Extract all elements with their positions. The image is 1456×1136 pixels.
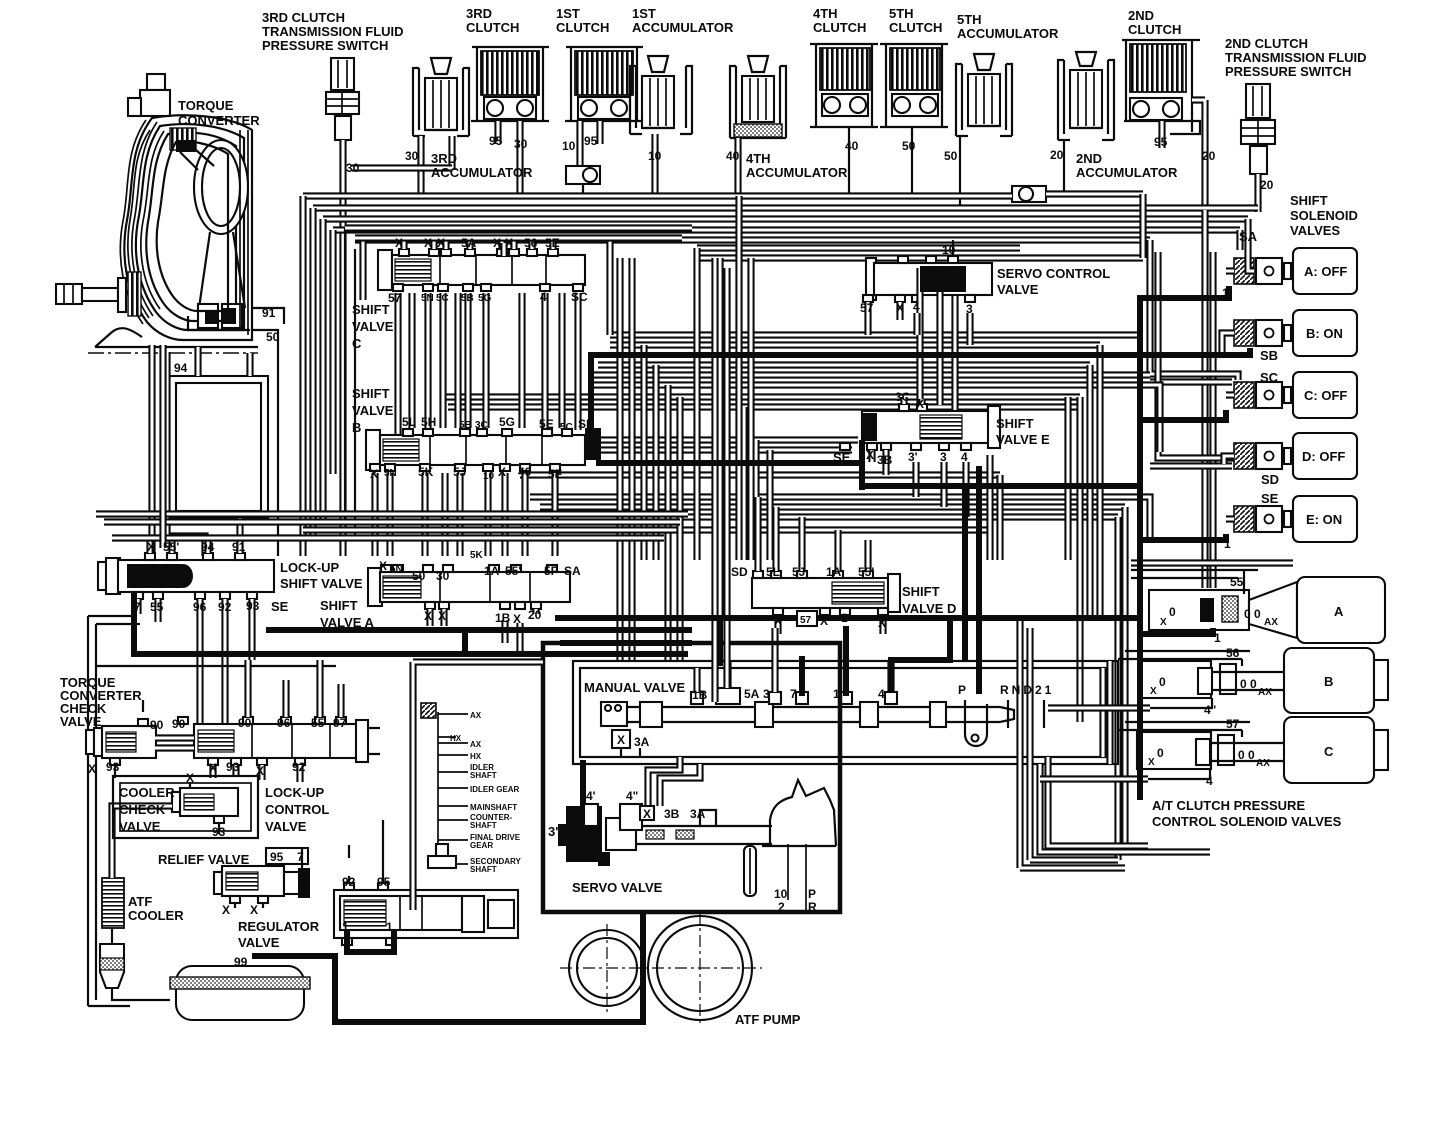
wire shift valve D stubs xyxy=(758,497,883,634)
svg-text:4TH: 4TH xyxy=(746,151,771,166)
svg-text:5A: 5A xyxy=(744,687,760,701)
svg-text:30: 30 xyxy=(346,161,360,175)
svg-text:AX: AX xyxy=(1264,617,1278,628)
lock-up control valve xyxy=(178,717,380,765)
heavy wire SE xyxy=(596,440,1140,490)
svg-text:55': 55' xyxy=(505,564,521,578)
svg-text:RND21: RND21 xyxy=(1000,683,1054,697)
wire torque converter drops xyxy=(163,345,250,548)
svg-text:X: X xyxy=(1160,617,1167,628)
svg-text:4": 4" xyxy=(1204,703,1216,717)
svg-text:90: 90 xyxy=(150,718,164,732)
svg-text:1A: 1A xyxy=(826,565,842,579)
svg-text:4: 4 xyxy=(1206,774,1213,788)
svg-text:3RD: 3RD xyxy=(431,151,457,166)
A/T pressure control valve B body xyxy=(1139,661,1236,698)
svg-text:X: X xyxy=(820,614,828,628)
svg-text:VALVE E: VALVE E xyxy=(996,432,1050,447)
wire to solenoid D xyxy=(1150,252,1238,466)
svg-text:3A: 3A xyxy=(690,807,706,821)
wire comb B to A xyxy=(375,473,555,556)
heavy wire jog xyxy=(462,630,468,654)
svg-text:TORQUE: TORQUE xyxy=(178,98,234,113)
svg-text:0 0: 0 0 xyxy=(1244,607,1261,621)
svg-text:LOCK-UP: LOCK-UP xyxy=(265,785,325,800)
2nd accumulator xyxy=(1058,52,1114,140)
svg-text:95: 95 xyxy=(270,850,284,864)
wire servo box left edge xyxy=(413,662,543,910)
wire solenoid elbows xyxy=(1222,271,1234,519)
svg-text:55': 55' xyxy=(858,565,874,579)
svg-text:0 0: 0 0 xyxy=(1238,748,1255,762)
svg-text:SHIFT VALVE: SHIFT VALVE xyxy=(280,576,363,591)
svg-text:C: C xyxy=(352,336,362,351)
svg-text:1ST: 1ST xyxy=(632,6,656,21)
heavy wire mid bus xyxy=(266,627,692,633)
svg-text:SE: SE xyxy=(1261,491,1279,506)
svg-text:3RD: 3RD xyxy=(466,6,492,21)
heavy wire solenoid C xyxy=(1140,410,1226,420)
svg-text:X: X xyxy=(916,397,924,411)
svg-text:R: R xyxy=(808,900,817,914)
heavy wire SB xyxy=(591,348,1250,355)
atf strainer xyxy=(170,966,310,1020)
svg-text:90: 90 xyxy=(172,717,186,731)
svg-text:57: 57 xyxy=(860,301,874,315)
reservoir 94 xyxy=(169,376,268,518)
svg-text:1: 1 xyxy=(1222,286,1229,300)
wire top bus 5 xyxy=(333,226,1240,233)
svg-text:50: 50 xyxy=(902,139,916,153)
svg-text:VALVES: VALVES xyxy=(1290,223,1340,238)
svg-text:AX: AX xyxy=(1256,758,1270,769)
svg-text:50: 50 xyxy=(412,569,426,583)
heavy trunk vertical xyxy=(1137,295,1143,800)
svg-text:1: 1 xyxy=(386,920,393,934)
svg-text:5F: 5F xyxy=(544,564,558,578)
heavy wire riser xyxy=(717,620,723,666)
svg-text:X: X xyxy=(513,612,521,626)
svg-text:95: 95 xyxy=(377,875,391,889)
svg-text:40: 40 xyxy=(518,465,532,479)
svg-text:SA: SA xyxy=(1239,229,1258,244)
svg-text:VALVE A: VALVE A xyxy=(320,615,375,630)
svg-text:SERVO VALVE: SERVO VALVE xyxy=(572,880,663,895)
svg-text:50: 50 xyxy=(266,330,280,344)
svg-text:95: 95 xyxy=(489,134,503,148)
svg-text:SOLENOID: SOLENOID xyxy=(1290,208,1358,223)
svg-text:57: 57 xyxy=(1226,717,1240,731)
svg-text:A: OFF: A: OFF xyxy=(1304,264,1347,279)
svg-text:D: OFF: D: OFF xyxy=(1302,449,1345,464)
svg-text:VALVE: VALVE xyxy=(265,819,307,834)
svg-text:10: 10 xyxy=(483,471,495,482)
shift solenoid valve D xyxy=(1234,433,1357,479)
svg-text:55: 55 xyxy=(150,600,164,614)
atf cooler xyxy=(100,878,170,1000)
svg-text:1ST: 1ST xyxy=(556,6,580,21)
svg-text:RELIEF VALVE: RELIEF VALVE xyxy=(158,852,250,867)
svg-text:0 0: 0 0 xyxy=(1240,677,1257,691)
svg-text:3B: 3B xyxy=(877,453,893,467)
heavy wire lock-up feed xyxy=(134,592,688,654)
svg-text:5C: 5C xyxy=(560,422,573,433)
svg-text:5J: 5J xyxy=(792,565,805,579)
svg-text:SB: SB xyxy=(1260,348,1278,363)
wire from reservoir to lock-up valve ports xyxy=(167,352,205,556)
servo valve piston black xyxy=(566,806,602,862)
svg-text:2ND CLUTCH: 2ND CLUTCH xyxy=(1225,36,1308,51)
svg-text:CONTROL SOLENOID VALVES: CONTROL SOLENOID VALVES xyxy=(1152,814,1342,829)
svg-text:56: 56 xyxy=(524,236,538,250)
svg-text:X: X xyxy=(1150,686,1157,697)
manual valve X 3A port xyxy=(612,730,630,748)
manual valve detent P RND21 xyxy=(965,700,1044,746)
wire 20 from 2nd switch xyxy=(1254,174,1261,212)
svg-text:B: B xyxy=(1324,674,1333,689)
svg-text:3C: 3C xyxy=(895,390,911,404)
svg-text:X: X xyxy=(896,301,904,315)
shift valve A xyxy=(368,565,570,609)
svg-text:30: 30 xyxy=(436,569,450,583)
wire to solenoid C xyxy=(1150,240,1238,382)
svg-text:5H: 5H xyxy=(421,415,436,429)
svg-text:55': 55' xyxy=(163,540,179,554)
svg-text:90: 90 xyxy=(238,716,252,730)
svg-text:57: 57 xyxy=(388,291,402,305)
svg-text:5B: 5B xyxy=(459,420,472,431)
servo control valve xyxy=(863,256,992,302)
svg-text:3A: 3A xyxy=(634,735,650,749)
wire lockup control to check valve xyxy=(155,738,194,748)
svg-text:X: X xyxy=(437,236,445,250)
gearbox reference block xyxy=(421,703,468,868)
svg-text:X: X xyxy=(498,465,506,479)
wire band above lock-up valves xyxy=(96,514,688,538)
manual valve xyxy=(601,688,1014,727)
A/T pressure control valve B enclosure xyxy=(1118,651,1250,659)
svg-text:5F: 5F xyxy=(548,467,562,481)
heavy wire line 4 xyxy=(976,466,982,694)
svg-text:5L: 5L xyxy=(766,565,780,579)
servo valve spool xyxy=(606,810,772,850)
svg-text:95: 95 xyxy=(1154,135,1168,149)
svg-text:3: 3 xyxy=(940,450,947,464)
heavy wire manual valve 7 xyxy=(799,656,805,696)
wire top bus 3 xyxy=(313,204,1258,211)
svg-text:1: 1 xyxy=(841,611,848,625)
wire shift valve E stubs xyxy=(872,397,966,517)
wire solenoid column verticals xyxy=(1201,210,1208,588)
svg-text:LOCK-UP: LOCK-UP xyxy=(280,560,340,575)
svg-text:SHIFT: SHIFT xyxy=(902,584,940,599)
svg-text:B: B xyxy=(352,420,361,435)
svg-text:ACCUMULATOR: ACCUMULATOR xyxy=(632,20,734,35)
svg-text:1B: 1B xyxy=(692,688,708,702)
svg-text:10: 10 xyxy=(562,139,576,153)
4th accumulator xyxy=(730,56,786,138)
wire torque converter feed xyxy=(148,345,155,556)
wire from 3rd accumulator xyxy=(421,136,452,196)
heavy wire servo 3 dash xyxy=(580,760,586,806)
svg-text:96: 96 xyxy=(277,716,291,730)
shift valve B xyxy=(366,428,601,471)
svg-text:CHECK: CHECK xyxy=(119,802,166,817)
shift solenoid valve E xyxy=(1234,496,1357,542)
svg-text:10: 10 xyxy=(648,149,662,163)
svg-text:57: 57 xyxy=(800,615,812,626)
svg-text:A/T CLUTCH PRESSURE: A/T CLUTCH PRESSURE xyxy=(1152,798,1305,813)
wire center vertical bundle xyxy=(606,240,613,335)
solenoid box A xyxy=(1249,577,1385,643)
wire top bus 6 xyxy=(355,236,1150,243)
svg-text:30: 30 xyxy=(514,137,528,151)
svg-text:HX: HX xyxy=(470,752,482,761)
node 55 xyxy=(1243,570,1245,594)
svg-text:20: 20 xyxy=(528,608,542,622)
svg-text:SE: SE xyxy=(833,450,851,465)
svg-text:X: X xyxy=(617,733,625,747)
wire SA drop to solenoid A xyxy=(1244,219,1251,252)
servo valve bell xyxy=(770,780,836,846)
svg-text:SHIFT: SHIFT xyxy=(352,386,390,401)
manual valve enclosure xyxy=(573,661,1118,764)
servo valve position labels xyxy=(788,844,806,912)
wire 30 from switch xyxy=(339,140,346,556)
svg-text:MANUAL VALVE: MANUAL VALVE xyxy=(584,680,685,695)
svg-text:20: 20 xyxy=(1202,149,1216,163)
svg-text:1B: 1B xyxy=(495,611,511,625)
torque converter xyxy=(95,74,258,347)
svg-text:5K: 5K xyxy=(418,465,434,479)
svg-text:56: 56 xyxy=(1226,646,1240,660)
svg-text:7: 7 xyxy=(134,600,141,614)
5th clutch xyxy=(880,44,948,127)
2nd clutch xyxy=(1122,40,1200,134)
shift solenoid valve A xyxy=(1234,248,1357,294)
svg-text:VALVE: VALVE xyxy=(352,319,394,334)
wire 40 from 4th accumulator xyxy=(734,138,741,196)
svg-text:93: 93 xyxy=(246,599,260,613)
svg-text:4": 4" xyxy=(626,789,638,803)
svg-text:VALVE: VALVE xyxy=(119,819,161,834)
orifice near 1st clutch xyxy=(566,166,600,184)
svg-text:VALVE: VALVE xyxy=(238,935,280,950)
1st accumulator xyxy=(630,56,692,134)
svg-text:5N: 5N xyxy=(390,564,403,575)
svg-text:AX: AX xyxy=(470,740,482,749)
svg-text:0: 0 xyxy=(1157,746,1164,760)
svg-text:ACCUMULATOR: ACCUMULATOR xyxy=(431,165,533,180)
svg-text:91: 91 xyxy=(262,306,276,320)
svg-text:P: P xyxy=(808,887,816,901)
svg-text:93: 93 xyxy=(226,760,240,774)
svg-text:5K: 5K xyxy=(470,550,484,561)
5th accumulator xyxy=(956,54,1012,136)
svg-text:50: 50 xyxy=(944,149,958,163)
svg-text:5L: 5L xyxy=(402,415,416,429)
svg-text:X: X xyxy=(222,903,230,917)
3rd accumulator xyxy=(413,58,469,136)
svg-text:55: 55 xyxy=(311,716,325,730)
svg-text:99: 99 xyxy=(234,955,248,969)
shift valve C xyxy=(378,249,585,291)
node 94 centre line xyxy=(88,352,258,354)
node 10 above servo control valve xyxy=(952,240,954,256)
svg-text:CLUTCH: CLUTCH xyxy=(556,20,609,35)
heavy wire regulator drain xyxy=(347,930,394,952)
svg-text:4TH: 4TH xyxy=(813,6,838,21)
svg-text:X: X xyxy=(88,762,96,776)
svg-text:7: 7 xyxy=(297,850,304,864)
svg-text:TRANSMISSION FLUID: TRANSMISSION FLUID xyxy=(1225,50,1367,65)
svg-text:1: 1 xyxy=(1222,408,1229,422)
4th clutch xyxy=(810,44,878,127)
svg-text:VALVE: VALVE xyxy=(60,714,102,729)
svg-text:1: 1 xyxy=(833,687,840,701)
svg-text:AX: AX xyxy=(1258,687,1272,698)
wire lock-up valve stubs xyxy=(138,541,252,724)
svg-text:SHAFT: SHAFT xyxy=(470,865,497,874)
svg-text:PRESSURE SWITCH: PRESSURE SWITCH xyxy=(262,38,388,53)
wire left bundle verticals xyxy=(299,196,306,556)
orifice near 2nd accumulator xyxy=(1012,186,1046,202)
heavy wire solenoid E xyxy=(1140,534,1226,540)
svg-text:COOLER: COOLER xyxy=(119,785,175,800)
svg-text:B: ON: B: ON xyxy=(1306,326,1343,341)
1st clutch xyxy=(565,47,643,121)
svg-text:5B: 5B xyxy=(461,293,474,304)
svg-text:94: 94 xyxy=(201,540,215,554)
svg-text:SHIFT: SHIFT xyxy=(352,302,390,317)
wire A/T enclosure lines xyxy=(1040,563,1293,779)
3rd clutch transmission fluid pressure switch xyxy=(326,58,359,140)
svg-text:X: X xyxy=(866,448,874,462)
servo valve pin xyxy=(744,846,756,896)
shift solenoid valve B xyxy=(1234,310,1357,356)
shift solenoid valve C xyxy=(1234,372,1357,418)
svg-text:E: ON: E: ON xyxy=(1306,512,1342,527)
enclosure around shift valves xyxy=(345,228,355,540)
svg-text:REGULATOR: REGULATOR xyxy=(238,919,320,934)
svg-text:5J: 5J xyxy=(453,465,466,479)
node 91 xyxy=(252,308,284,324)
wire lock-up control valve stubs xyxy=(213,660,341,782)
svg-text:3': 3' xyxy=(908,450,918,464)
svg-text:VALVE D: VALVE D xyxy=(902,601,956,616)
svg-text:SA: SA xyxy=(564,564,581,578)
wire 10 95 from 1st clutch xyxy=(580,121,600,166)
wire right lower loops xyxy=(1103,661,1110,764)
wire 95 20 from 2nd clutch xyxy=(1162,100,1205,210)
svg-text:ACCUMULATOR: ACCUMULATOR xyxy=(746,165,848,180)
A/T pressure control valve C enclosure xyxy=(1118,722,1250,730)
wire valve C top stubs xyxy=(404,236,553,249)
solenoid box B xyxy=(1284,648,1388,713)
wire top bus 1 xyxy=(352,164,452,171)
svg-text:2ND: 2ND xyxy=(1076,151,1102,166)
heavy wire solenoid A xyxy=(1140,286,1229,298)
svg-text:10: 10 xyxy=(774,887,788,901)
svg-text:X: X xyxy=(424,236,432,250)
svg-text:X: X xyxy=(370,467,378,481)
svg-text:5E: 5E xyxy=(545,236,560,250)
svg-text:ATF PUMP: ATF PUMP xyxy=(735,1012,801,1027)
svg-text:5TH: 5TH xyxy=(889,6,914,21)
svg-text:40: 40 xyxy=(845,139,859,153)
svg-text:20: 20 xyxy=(1050,148,1064,162)
svg-text:20: 20 xyxy=(1260,178,1274,192)
svg-text:4: 4 xyxy=(961,450,968,464)
svg-text:HX: HX xyxy=(450,734,462,743)
svg-text:2ND: 2ND xyxy=(1128,8,1154,23)
servo valve port labels xyxy=(584,804,598,826)
svg-text:SC: SC xyxy=(1260,370,1279,385)
svg-text:SHAFT: SHAFT xyxy=(470,771,497,780)
svg-text:5C: 5C xyxy=(436,293,449,304)
svg-text:SHIFT: SHIFT xyxy=(1290,193,1328,208)
svg-text:40: 40 xyxy=(726,149,740,163)
solenoid box C xyxy=(1284,717,1388,783)
svg-text:X: X xyxy=(505,236,513,250)
wire right mid horizontals xyxy=(697,244,1020,251)
2nd clutch transmission fluid pressure switch xyxy=(1241,84,1275,174)
svg-text:IDLER GEAR: IDLER GEAR xyxy=(470,785,520,794)
svg-text:SHIFT: SHIFT xyxy=(996,416,1034,431)
svg-text:96: 96 xyxy=(193,600,207,614)
svg-text:5A: 5A xyxy=(461,236,477,250)
svg-text:SB: SB xyxy=(578,417,595,431)
svg-text:3B: 3B xyxy=(664,807,680,821)
svg-text:X: X xyxy=(424,609,432,623)
svg-text:X: X xyxy=(493,236,501,250)
svg-text:MAINSHAFT: MAINSHAFT xyxy=(470,803,517,812)
wire solenoid A feed xyxy=(1248,252,1254,271)
heavy wire to A/T valve A xyxy=(1140,628,1213,634)
svg-text:5N: 5N xyxy=(421,293,434,304)
cooler check valve enclosure xyxy=(113,776,258,838)
svg-text:CLUTCH: CLUTCH xyxy=(466,20,519,35)
svg-text:COOLER: COOLER xyxy=(128,908,184,923)
svg-text:X: X xyxy=(395,236,403,250)
wire mid verticals extra xyxy=(715,196,751,702)
svg-text:SD: SD xyxy=(1261,472,1279,487)
svg-text:3RD CLUTCH: 3RD CLUTCH xyxy=(262,10,345,25)
heavy wire manual valve 1 xyxy=(843,626,849,696)
svg-text:97: 97 xyxy=(333,716,347,730)
svg-text:1: 1 xyxy=(342,920,349,934)
svg-text:A: A xyxy=(1334,604,1344,619)
svg-text:4: 4 xyxy=(913,300,920,314)
svg-text:5G: 5G xyxy=(478,293,492,304)
wire cooler link xyxy=(112,806,172,878)
3rd clutch xyxy=(471,47,549,121)
svg-text:SC: SC xyxy=(571,290,588,304)
svg-text:PRESSURE SWITCH: PRESSURE SWITCH xyxy=(1225,64,1351,79)
svg-text:ACCUMULATOR: ACCUMULATOR xyxy=(1076,165,1178,180)
svg-text:X: X xyxy=(774,614,782,628)
svg-text:X: X xyxy=(878,616,886,630)
svg-text:TRANSMISSION FLUID: TRANSMISSION FLUID xyxy=(262,24,404,39)
svg-text:5G: 5G xyxy=(499,415,515,429)
svg-text:X: X xyxy=(147,540,155,554)
servo valve enclosure xyxy=(543,643,840,912)
svg-text:P: P xyxy=(958,683,966,697)
svg-text:3C: 3C xyxy=(475,420,488,431)
svg-text:SHIFT: SHIFT xyxy=(320,598,358,613)
wire servo control stubs xyxy=(868,302,970,345)
svg-text:C: C xyxy=(1324,744,1334,759)
